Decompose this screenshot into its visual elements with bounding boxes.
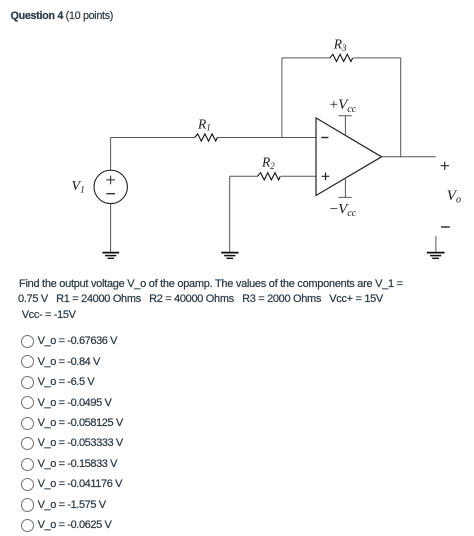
svg-text:R2: R2 <box>261 155 275 171</box>
ground (R2) <box>221 253 238 259</box>
wire R2 ground vertical <box>229 176 231 252</box>
svg-text:−Vcc: −Vcc <box>330 202 357 220</box>
wire feedback top horizontal <box>282 57 401 59</box>
svg-text:V1: V1 <box>72 179 85 195</box>
output minus sign <box>441 226 450 228</box>
wire feedback right vertical <box>400 58 402 157</box>
op-amp U1 <box>316 118 382 196</box>
V1 plus sign <box>106 176 115 185</box>
+Vcc supply stub <box>338 116 351 136</box>
op-amp inverting input minus sign <box>321 137 328 139</box>
wire input horizontal (V1 to op-amp inverting input) <box>111 137 316 139</box>
voltage source V1 <box>94 170 127 203</box>
V1 minus sign <box>106 193 115 195</box>
resistor R1 <box>195 134 218 141</box>
node: output / R3 feedback junction <box>400 156 401 157</box>
wire V1 bottom vertical <box>110 204 112 252</box>
wire output horizontal <box>382 156 436 158</box>
wire R2 horizontal <box>230 175 316 177</box>
svg-text:Vo: Vo <box>447 188 461 206</box>
ground (V1) <box>102 253 119 259</box>
-Vcc supply stub <box>338 178 351 197</box>
wire V1 top vertical <box>110 138 112 171</box>
op-amp non-inverting input plus sign <box>322 173 330 181</box>
node: inverting input / R1-R3 junction <box>281 137 282 138</box>
resistor R3 <box>330 54 353 61</box>
svg-text:+Vcc: +Vcc <box>330 97 357 115</box>
ground (output) <box>435 236 437 252</box>
wire feedback left vertical (node A up) <box>281 58 283 138</box>
output plus sign <box>441 162 449 170</box>
svg-text:R1: R1 <box>197 116 211 132</box>
resistor R2 <box>258 173 281 180</box>
svg-text:R3: R3 <box>333 37 347 53</box>
